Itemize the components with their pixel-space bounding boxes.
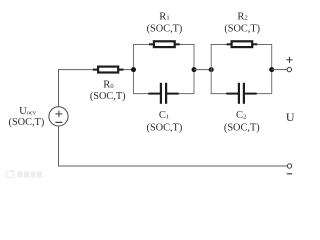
label C2 (SOC,T) [224,110,260,133]
resistor R0 [93,66,124,74]
wire node B to node C [194,69,211,71]
svg-text:U: U [286,110,295,124]
wire from source top to R0 [59,70,94,107]
wire RC2 right vertical [271,45,273,94]
svg-text:R0: R0 [103,80,113,91]
svg-text:C1: C1 [159,110,169,121]
svg-text:C2: C2 [236,110,246,121]
svg-text:(SOC,T): (SOC,T) [147,23,183,34]
label R0 (SOC,T) [90,80,126,102]
wire RC1 left vertical [133,45,135,94]
svg-text:(SOC,T): (SOC,T) [224,23,260,34]
svg-text:R2: R2 [237,11,247,22]
wire RC1 top rail [133,44,195,46]
watermark [7,170,43,178]
wire R0 to node A [124,69,134,71]
svg-text:Uocv: Uocv [19,106,37,117]
capacitor C2 [226,83,256,104]
node C junction dot [209,67,214,72]
wire RC2 bottom rail [211,93,273,95]
svg-text:(SOC,T): (SOC,T) [147,122,183,133]
wire RC2 left vertical [210,45,212,94]
label U output voltage [286,110,295,124]
wire node D to positive terminal [272,69,288,71]
wire source bottom to negative rail [58,126,60,166]
node B junction dot [192,67,197,72]
label C1 (SOC,T) [147,110,183,133]
resistor R2 [227,40,258,48]
wire RC2 top rail [211,44,273,46]
resistor R1 [149,40,180,48]
voltage source U_ocv [49,107,68,126]
label R2 (SOC,T) [224,11,260,34]
label R1 (SOC,T) [147,11,183,34]
node A junction dot [131,67,136,72]
wire RC1 bottom rail [133,93,195,95]
capacitor C1 [148,83,178,104]
label Uocv (SOC,T) [9,106,45,128]
svg-text:R1: R1 [159,11,169,22]
svg-text:(SOC,T): (SOC,T) [9,117,45,128]
svg-text:(SOC,T): (SOC,T) [224,122,260,133]
node D junction dot [269,67,274,72]
wire RC1 right vertical [193,45,195,94]
negative terminal [287,164,292,174]
svg-text:(SOC,T): (SOC,T) [90,91,126,102]
wire bottom negative rail [58,165,287,167]
positive terminal [286,57,292,72]
